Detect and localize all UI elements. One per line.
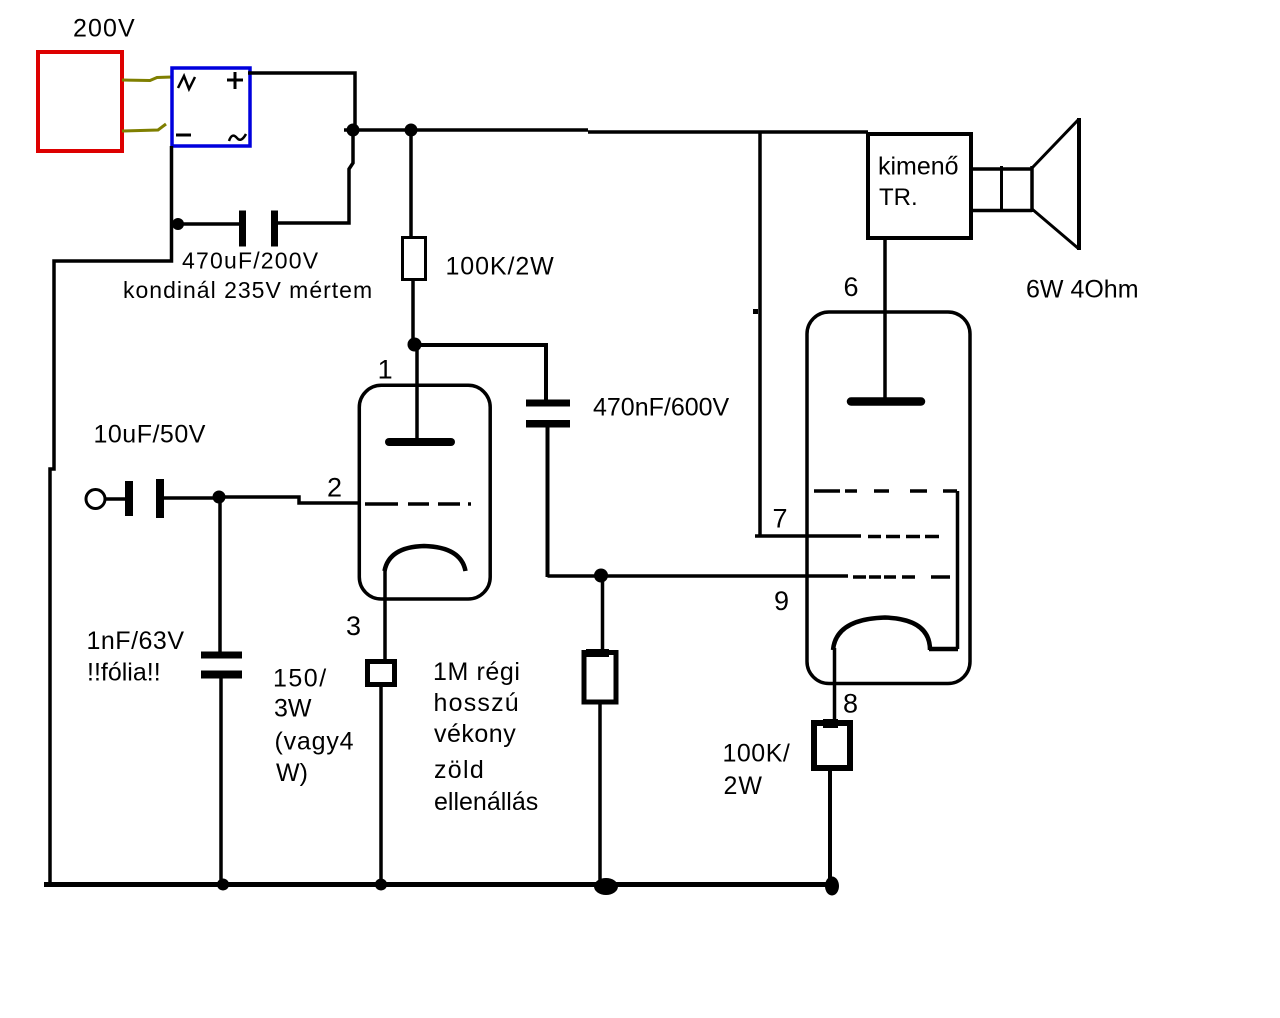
resistor R2 top lead step bbox=[586, 649, 609, 657]
bridge terminal minus bbox=[176, 134, 191, 137]
primary wire lower (olive) bbox=[122, 124, 166, 131]
svg-text:W): W) bbox=[276, 759, 308, 787]
svg-text:1nF/63V: 1nF/63V bbox=[87, 627, 185, 655]
wire anode lead into tube bbox=[415, 345, 419, 440]
wire anode lead V2 from transformer bbox=[883, 240, 887, 399]
svg-text:2W: 2W bbox=[724, 772, 764, 800]
wire pin 7 horizontal bbox=[755, 534, 861, 538]
svg-text:150/: 150/ bbox=[273, 665, 328, 693]
node ground dot under R3 bbox=[375, 879, 387, 891]
node anode junction dot (414,344) bbox=[408, 338, 422, 352]
node junction dot on cap left lead bbox=[172, 218, 184, 230]
wire cathode pin 8 lead bbox=[833, 648, 837, 723]
grid dashes V1 bbox=[365, 502, 398, 506]
capacitor C3 10uF left plate bbox=[125, 481, 133, 516]
wire grid pin 2 lead bbox=[219, 497, 358, 503]
wire speaker lead bottom bbox=[973, 209, 1032, 213]
output transformer box kimeno TR. bbox=[868, 134, 971, 238]
node junction dot B (411,130) bbox=[405, 124, 418, 137]
anode plate bar V2 bbox=[851, 397, 921, 406]
wire R2 bottom to ground bus bbox=[598, 700, 602, 884]
bridge rectifier B1 (blue box) bbox=[172, 68, 250, 146]
wire HT rail top bbox=[344, 128, 588, 132]
wire cathode lead to R3 bbox=[383, 569, 387, 661]
node ground dot under C4 bbox=[217, 879, 229, 891]
wire cathode to g3 link horizontal bbox=[929, 647, 958, 652]
wire R1 bottom to anode node bbox=[411, 280, 415, 346]
svg-text:(vagy4: (vagy4 bbox=[275, 728, 355, 756]
svg-text:470uF/200V: 470uF/200V bbox=[182, 248, 319, 274]
svg-text:3: 3 bbox=[346, 611, 361, 641]
wire jack to C3 bbox=[105, 497, 126, 501]
grid g3 dashes V2 top row bbox=[814, 489, 840, 493]
bridge terminal + bbox=[227, 72, 243, 89]
cathode arc V1 bbox=[385, 546, 466, 571]
speaker coil square right edge bbox=[1030, 166, 1034, 212]
svg-text:kimenő: kimenő bbox=[878, 153, 959, 181]
node junction dot input (219,497) bbox=[213, 491, 226, 504]
primary wire upper (olive) bbox=[122, 77, 172, 81]
svg-text:7: 7 bbox=[773, 504, 788, 534]
speaker horn mouth bbox=[1077, 118, 1081, 250]
wire R4 bottom to ground bus bbox=[828, 768, 832, 884]
wire g3 to cathode link bbox=[956, 491, 960, 649]
svg-text:100K/: 100K/ bbox=[723, 740, 791, 768]
node ground blob under R2 bbox=[594, 878, 618, 895]
bridge terminal ~ bottom-right bbox=[229, 134, 246, 141]
resistor R4 top lead step bbox=[823, 719, 838, 728]
svg-text:2: 2 bbox=[327, 473, 342, 503]
capacitor C4 1nF top plate bbox=[201, 652, 242, 659]
capacitor C2 470nF top plate bbox=[526, 400, 570, 407]
tube V1 envelope (left triode) bbox=[359, 385, 490, 599]
wire 470uF left lead bbox=[170, 222, 239, 226]
svg-text:zöld: zöld bbox=[434, 756, 485, 784]
svg-text:vékony: vékony bbox=[434, 720, 516, 748]
svg-text:1M régi: 1M régi bbox=[433, 658, 521, 686]
node ground end blob bbox=[825, 877, 839, 896]
svg-text:9: 9 bbox=[774, 586, 789, 616]
capacitor C3 10uF right plate bbox=[156, 479, 164, 518]
svg-text:6W 4Ohm: 6W 4Ohm bbox=[1026, 276, 1139, 304]
resistor R1 100K/2W (anode load) bbox=[403, 238, 426, 280]
wire bridge - lead down and left border bbox=[50, 146, 172, 884]
wire 470uF right lead up to HT node bbox=[278, 132, 353, 223]
wire C2 bottom lead down bbox=[546, 427, 550, 577]
svg-text:3W: 3W bbox=[274, 695, 312, 723]
wire C3 to input node bbox=[164, 496, 220, 500]
capacitor C1 470uF right plate bbox=[271, 211, 278, 247]
wire grid line to right tube pin 9 bbox=[548, 574, 849, 578]
transformer T1 (mains transformer, red box) bbox=[38, 52, 122, 151]
speaker coil square left edge bbox=[1000, 166, 1003, 212]
wire R3 bottom to ground bus bbox=[379, 684, 383, 884]
wire screen feed down right (pin 7 feed) bbox=[758, 132, 762, 536]
input jack circle bbox=[86, 490, 105, 509]
resistor R3 150/3W cathode bbox=[368, 662, 395, 685]
svg-text:200V: 200V bbox=[73, 14, 136, 42]
wire anode node to coupling cap bbox=[414, 345, 546, 401]
svg-text:6: 6 bbox=[844, 272, 859, 302]
resistor R2 1M grid leak bbox=[584, 653, 616, 703]
wire grid node down to R2 bbox=[601, 575, 605, 654]
speaker horn slants bbox=[1032, 119, 1079, 249]
anode plate bar V1 bbox=[389, 438, 451, 446]
resistor R4 100K/2W cathode bbox=[814, 723, 850, 768]
wire input node down to C4 bbox=[218, 497, 222, 653]
wire bridge + to HT rail bbox=[248, 73, 355, 130]
svg-text:10uF/50V: 10uF/50V bbox=[94, 421, 206, 449]
node junction dot grid node (601,575) bbox=[594, 569, 608, 583]
svg-text:ellenállás: ellenállás bbox=[434, 788, 538, 816]
svg-text:hosszú: hosszú bbox=[434, 689, 520, 717]
grid g2 dashes V2 middle row bbox=[868, 535, 881, 539]
wire C4 bottom to ground bus bbox=[219, 678, 223, 884]
wire HT rail top right part bbox=[588, 130, 868, 134]
svg-text:kondinál 235V mértem: kondinál 235V mértem bbox=[123, 277, 373, 303]
svg-text:1: 1 bbox=[378, 355, 393, 385]
svg-text:470nF/600V: 470nF/600V bbox=[593, 394, 730, 422]
ground bus bottom bbox=[44, 882, 834, 887]
capacitor C1 470uF left plate bbox=[239, 211, 246, 247]
bridge terminal ~ top-left bbox=[178, 76, 195, 89]
capacitor C4 1nF bottom plate bbox=[201, 671, 242, 679]
wire HT node to R1 bbox=[409, 130, 413, 238]
wire speaker lead top bbox=[973, 167, 1032, 171]
cathode arc V2 bbox=[833, 618, 930, 651]
tube V2 envelope (output pentode) bbox=[807, 312, 970, 684]
svg-text:!!fólia!!: !!fólia!! bbox=[87, 659, 161, 687]
svg-text:TR.: TR. bbox=[879, 184, 918, 211]
svg-text:100K/2W: 100K/2W bbox=[446, 253, 555, 281]
capacitor C2 470nF bottom plate bbox=[526, 420, 570, 428]
stub tick on feed wire bbox=[753, 309, 758, 314]
svg-text:8: 8 bbox=[843, 689, 858, 719]
grid g1 dashes V2 bottom row bbox=[853, 575, 866, 579]
node junction dot A (353,130) bbox=[347, 124, 360, 137]
